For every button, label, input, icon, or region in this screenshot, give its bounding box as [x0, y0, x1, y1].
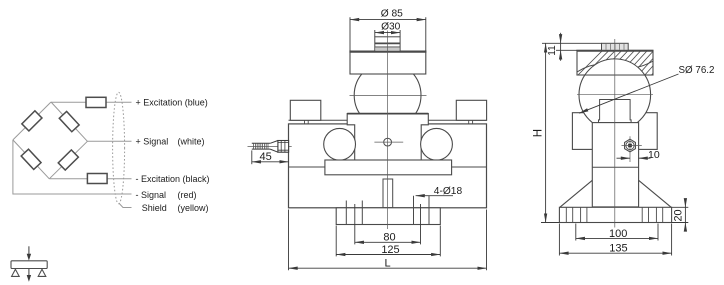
resistor R1	[22, 111, 42, 131]
wire +signal	[87, 140, 131, 142]
leader SØ76.2	[579, 74, 678, 113]
mount block left	[290, 100, 321, 120]
bolt hole right	[414, 196, 430, 225]
cap top thick edge	[577, 50, 654, 52]
dim 100 line	[576, 237, 658, 239]
beam	[11, 261, 47, 269]
dim 100 ext lines	[576, 224, 658, 241]
dim Ø30 extension lines	[375, 30, 400, 37]
flare diagonal left	[560, 180, 593, 207]
dim Ø30 line	[375, 32, 400, 34]
body main rectangle	[289, 124, 487, 208]
resistor R2	[59, 111, 79, 131]
resistor R6 (-excitation lead)	[87, 174, 107, 184]
dim 45 extension line	[251, 150, 253, 164]
dim 80 extension lines	[355, 204, 421, 244]
svg-text:135: 135	[609, 242, 627, 254]
wire bridge arm bottom-right	[49, 141, 87, 179]
wire -signal	[13, 140, 132, 194]
center stud	[383, 179, 393, 208]
boss thread ticks	[606, 44, 624, 50]
svg-text:- Excitation (black): - Excitation (black)	[136, 174, 210, 184]
load arrow top	[28, 246, 30, 256]
wire bridge arm top-left	[13, 102, 51, 140]
centerline ball equator (front view)	[350, 95, 427, 97]
svg-text:L: L	[385, 258, 391, 270]
gland hex facets	[278, 141, 289, 153]
ext H bottom	[541, 222, 559, 224]
svg-text:+ Excitation (blue): + Excitation (blue)	[136, 98, 208, 108]
svg-text:(yellow): (yellow)	[178, 203, 209, 213]
dim Ø85 line	[350, 19, 426, 21]
svg-text:125: 125	[381, 244, 399, 256]
centerline gland	[622, 136, 642, 162]
resistor R4	[21, 149, 41, 169]
svg-text:(white): (white)	[178, 137, 205, 147]
dim 20 arrows	[684, 199, 686, 207]
dim 20 ext lines	[672, 207, 689, 222]
dim 80 line	[355, 241, 421, 243]
load arrow bottom	[28, 269, 30, 278]
ball pedestal	[599, 100, 632, 123]
dim 125 extension lines	[336, 226, 440, 257]
dim 11 line	[560, 43, 562, 50]
shear hump right	[421, 128, 453, 160]
base pedestal	[336, 208, 440, 225]
seat swirl arc	[577, 61, 653, 72]
dim 135 line	[559, 252, 671, 254]
ext boss top / H top	[542, 42, 602, 44]
cable gland center	[628, 144, 632, 148]
cap hatching	[572, 50, 673, 85]
body top plate line	[289, 119, 487, 121]
cable centerline	[248, 145, 292, 147]
dim 125 line	[336, 254, 440, 256]
centerline vertical (side view)	[614, 39, 616, 228]
base plate	[559, 207, 671, 222]
dim H line	[545, 43, 547, 222]
column seam	[592, 166, 638, 168]
ball front	[354, 62, 421, 129]
centerline ball horizontal	[577, 94, 653, 96]
dim 11 arrows	[560, 33, 562, 44]
svg-text:11: 11	[547, 45, 558, 56]
base bolt lines right	[642, 207, 663, 222]
svg-text:4-Ø18: 4-Ø18	[434, 186, 463, 197]
arrowhead bottom	[27, 275, 31, 282]
support triangle left	[12, 269, 20, 276]
svg-text:(red): (red)	[178, 190, 197, 200]
svg-text:SØ 76.2: SØ 76.2	[679, 65, 715, 76]
mount block right	[456, 100, 486, 120]
leader 4-Ø18	[416, 195, 453, 197]
shear hump left	[324, 128, 356, 160]
boss front	[375, 37, 400, 51]
boss shade strip	[375, 47, 399, 51]
cap front	[350, 51, 426, 74]
locating notch left	[305, 120, 309, 124]
body end face	[572, 113, 657, 150]
base bolt lines left	[566, 207, 587, 222]
ball side	[579, 59, 651, 131]
column	[592, 123, 638, 207]
svg-text:Ø30: Ø30	[381, 21, 401, 32]
flare diagonal right	[639, 180, 672, 207]
dim Ø85 extension lines	[350, 17, 426, 51]
cable gland hex	[625, 139, 636, 152]
arrowhead top	[27, 254, 31, 261]
svg-text:+ Signal: + Signal	[136, 137, 169, 147]
ext cap top for 11	[556, 49, 577, 51]
locating notch right	[469, 120, 473, 124]
boss groove lines	[375, 42, 400, 44]
center hole	[384, 138, 392, 146]
svg-text:80: 80	[383, 232, 395, 244]
cable threaded rod	[252, 143, 270, 149]
svg-text:Ø 85: Ø 85	[381, 9, 403, 20]
dim 45 line	[252, 161, 289, 163]
cable thread ticks	[254, 143, 268, 149]
svg-text:Shield: Shield	[142, 203, 167, 213]
cable gland circle	[626, 141, 634, 149]
centerline horizontal (front view hole)	[374, 141, 403, 143]
body seam line	[289, 166, 487, 168]
resistor R5 (+excitation lead)	[86, 97, 106, 107]
wire shield	[119, 203, 132, 208]
center block	[347, 114, 428, 161]
clamp bar	[325, 160, 452, 175]
seat ball arc	[579, 59, 651, 131]
resistor R3	[58, 150, 78, 170]
svg-text:20: 20	[673, 209, 685, 221]
svg-text:H: H	[532, 129, 544, 137]
cap top thick edge	[349, 50, 426, 52]
dim L extension lines	[289, 210, 487, 271]
dim 20 line	[684, 207, 686, 222]
dim 135 ext lines	[559, 224, 671, 256]
wire bridge arm bottom-left	[13, 140, 49, 179]
support triangle right	[38, 269, 46, 276]
bolt hole left	[346, 201, 362, 225]
center block top edge emphasis	[347, 113, 428, 115]
boss side	[602, 43, 629, 50]
dim 10 arrows	[617, 157, 631, 159]
svg-text:45: 45	[259, 151, 271, 163]
svg-text:10: 10	[648, 149, 660, 161]
wire bridge arm top-right	[51, 102, 87, 141]
cable gland hex body	[278, 141, 289, 153]
wire -excitation	[49, 178, 131, 180]
cap side	[577, 50, 653, 75]
cable taper	[270, 141, 278, 153]
cable shield ellipse	[113, 92, 125, 204]
centerline vertical (front view)	[387, 31, 389, 230]
dim L line	[289, 267, 487, 269]
svg-text:100: 100	[609, 228, 627, 240]
svg-text:- Signal: - Signal	[136, 190, 167, 200]
wire +excitation	[51, 101, 132, 103]
